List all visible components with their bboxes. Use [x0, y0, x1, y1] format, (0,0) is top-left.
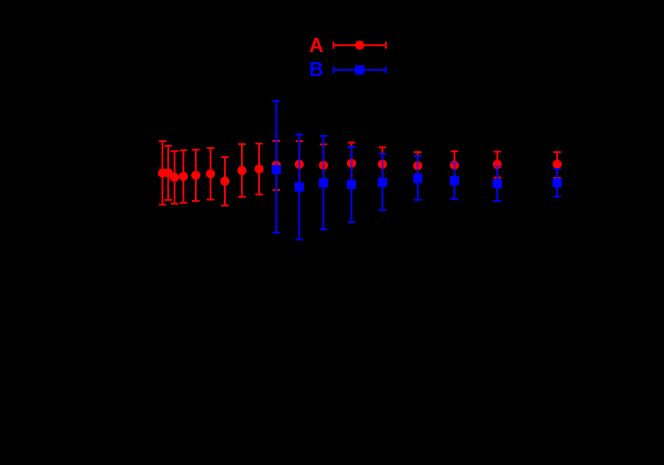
- data point B4 (square marker): [347, 180, 356, 189]
- data point A2 (circle marker): [164, 168, 173, 177]
- error bar B4: [348, 147, 356, 222]
- data point A15 (circle marker): [413, 161, 422, 170]
- data point A9 (circle marker): [255, 164, 264, 173]
- data point A13 (circle marker): [347, 159, 356, 168]
- error bar B3: [320, 136, 328, 230]
- data point B8 (square marker): [493, 179, 502, 188]
- data point A3 (circle marker): [170, 173, 179, 182]
- data point B1 (square marker): [272, 165, 281, 174]
- error bar B8: [494, 166, 502, 201]
- data point B5 (square marker): [378, 178, 387, 187]
- data point B9 (square marker): [553, 178, 562, 187]
- data point A10 (circle marker): [272, 161, 281, 170]
- data point A11 (circle marker): [295, 160, 304, 169]
- wire overlap blend B6: [417, 161, 419, 170]
- wire overlap blend B8: [496, 166, 498, 169]
- data point A16 (circle marker): [450, 160, 459, 169]
- wire overlap blend B7: [453, 163, 455, 170]
- legend sample A (error bar with circle): [334, 42, 386, 49]
- data point A17 (circle marker): [493, 160, 502, 169]
- data point B7 (square marker): [450, 176, 459, 185]
- error bar A7: [221, 157, 229, 206]
- error bar A8: [238, 144, 246, 197]
- data point A12 (circle marker): [319, 161, 328, 170]
- data point A6 (circle marker): [206, 169, 215, 178]
- data point A1 (circle marker): [158, 168, 167, 177]
- error bar A18: [553, 152, 561, 178]
- data point B2 (square marker): [295, 182, 304, 191]
- data point A14 (circle marker): [378, 160, 387, 169]
- data point A5 (circle marker): [191, 171, 200, 180]
- error bar B1: [273, 101, 281, 232]
- error bar A2: [164, 146, 172, 200]
- error bar A9: [255, 144, 263, 195]
- error bar A6: [207, 148, 215, 200]
- data point A7 (circle marker): [220, 177, 229, 186]
- error bar A10: [273, 141, 281, 190]
- wire overlap blend B2: [298, 160, 300, 169]
- error bar A4: [180, 150, 188, 203]
- error bar A16: [451, 151, 459, 178]
- wire overlap blend B4: [351, 159, 353, 168]
- error bar A15: [414, 152, 422, 179]
- error bar B6: [414, 156, 422, 200]
- wire overlap blend B1: [275, 161, 277, 170]
- error bar A11: [296, 141, 304, 187]
- data point A18 (circle marker): [553, 160, 562, 169]
- error bar A17: [494, 152, 502, 178]
- data point B3 (square marker): [319, 178, 328, 187]
- error bar A12: [320, 144, 328, 186]
- data point A4 (circle marker): [179, 172, 188, 181]
- error bar A3: [171, 151, 179, 204]
- data point A8 (circle marker): [237, 166, 246, 175]
- error bar A13: [348, 143, 356, 184]
- data point B6 (square marker): [413, 174, 422, 183]
- error bar B2: [296, 134, 304, 239]
- wire overlap blend B3: [323, 161, 325, 170]
- legend sample B (error bar with square): [334, 66, 386, 73]
- error bar A14: [379, 147, 387, 181]
- error bar B9: [553, 169, 561, 197]
- wire overlap blend B5: [381, 160, 383, 169]
- svg-text:A: A: [309, 35, 323, 57]
- error bar A1: [159, 141, 167, 204]
- error bar A5: [192, 150, 200, 201]
- svg-text:B: B: [309, 59, 323, 81]
- error bar B7: [451, 163, 459, 199]
- error bar B5: [379, 154, 387, 211]
